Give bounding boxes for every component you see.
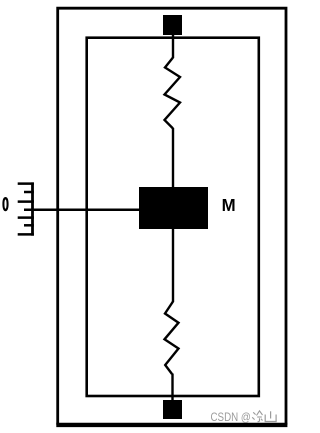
ruler short tick 2	[24, 224, 34, 227]
frame outer rectangle	[56, 8, 287, 425]
label 0 (zero mark)	[2, 197, 8, 211]
svg-text:M: M	[222, 194, 236, 214]
anchor block top	[163, 15, 182, 35]
spring K1 (top)	[165, 58, 181, 129]
spring K2 (bottom)	[165, 302, 179, 375]
ruler scale body	[31, 182, 34, 235]
watermark glyph 山	[265, 411, 276, 421]
anchor block bottom	[163, 400, 182, 419]
mass M block	[139, 187, 208, 229]
ruler long tick 1	[18, 182, 34, 185]
ruler short tick 1	[24, 191, 34, 194]
ruler long tick 2	[18, 200, 34, 203]
ruler long tick 3	[18, 216, 34, 219]
pointer wire ruler to mass	[24, 209, 140, 212]
ruler long tick 4	[18, 233, 34, 236]
wire top anchor to spring	[172, 34, 174, 58]
watermark glyph 冷	[252, 411, 262, 422]
wire spring K1 to mass	[172, 128, 174, 188]
wire spring K2 to bottom anchor	[171, 374, 173, 403]
wire mass to spring K2	[172, 228, 174, 302]
svg-text:CSDN @: CSDN @	[211, 411, 251, 424]
frame inner rectangle	[87, 38, 259, 396]
